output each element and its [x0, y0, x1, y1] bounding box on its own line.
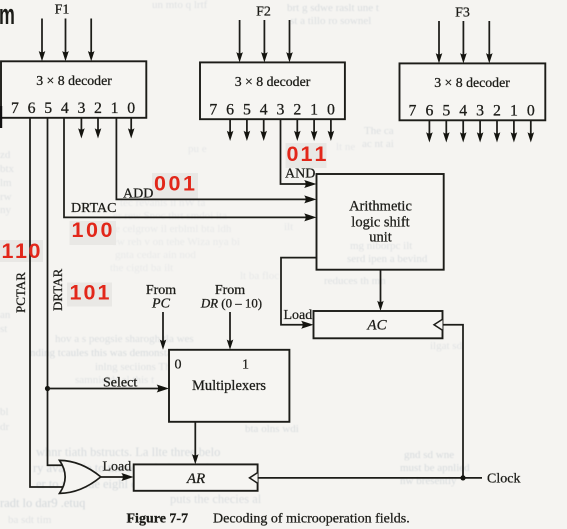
U3 unused output arrows pins 6..0 — [426, 120, 534, 142]
wire DRTAR: U1 pin 5 down to OR gate input, with select tap — [48, 118, 65, 465]
svg-text:the cigtd ba ilt: the cigtd ba ilt — [110, 262, 173, 274]
highlight patch for red code 011 — [286, 143, 327, 168]
red code 100 annotation — [72, 218, 113, 242]
svg-text:lt ne: lt ne — [336, 141, 355, 153]
red code 110 annotation — [2, 239, 41, 263]
svg-text:ba sdt tim: ba sdt tim — [8, 514, 52, 526]
wire From PC into multiplexer input 0 — [160, 312, 167, 350]
svg-text:nw bresently: nw bresently — [400, 475, 457, 487]
svg-text:ilgat sd: ilgat sd — [430, 340, 463, 352]
svg-text:Select: Select — [103, 376, 137, 391]
label F3 — [455, 6, 470, 21]
label From DR (0-10) — [200, 283, 262, 311]
svg-text:serd ipen a bevind: serd ipen a bevind — [347, 253, 428, 265]
svg-text:ny: ny — [0, 204, 12, 216]
svg-text:ADD: ADD — [123, 187, 153, 202]
wire From DR into multiplexer input 1 — [227, 312, 234, 350]
svg-text:DRTAR: DRTAR — [50, 268, 65, 311]
wire AND: U2 pin 3 to ALU input — [281, 119, 317, 188]
register AR box — [134, 464, 258, 490]
junction dot on DRTAR wire at Select tap — [45, 386, 50, 391]
svg-text:ac nt ai: ac nt ai — [362, 138, 394, 150]
svg-text:DR (0 – 10): DR (0 – 10) — [200, 297, 262, 311]
svg-text:1: 1 — [242, 358, 249, 373]
svg-text:lm: lm — [0, 177, 12, 189]
svg-text:zd: zd — [0, 149, 11, 161]
svg-text:bta olns wdi: bta olns wdi — [245, 423, 299, 435]
svg-text:001: 001 — [154, 172, 195, 196]
svg-text:bl: bl — [0, 406, 9, 418]
svg-text:The ca: The ca — [364, 125, 394, 137]
label Load (AR) — [103, 460, 132, 475]
figure caption — [127, 512, 410, 527]
OR gate G1 for AR load — [60, 460, 101, 493]
svg-text:hov a s peogsie sharogh tla we: hov a s peogsie sharogh tla wes — [55, 333, 194, 345]
svg-text:0: 0 — [175, 358, 182, 373]
label F1 — [55, 3, 70, 18]
svg-text:Decoding of microoperation fie: Decoding of microoperation fields. — [213, 512, 410, 527]
decoder U2 output pin numbers 7..0 — [209, 102, 335, 119]
svg-text:3 × 8 decoder: 3 × 8 decoder — [235, 74, 311, 89]
label F2 — [256, 5, 271, 20]
decoder U1 box — [1, 61, 146, 118]
red code 101 annotation — [70, 281, 110, 305]
cropped letter m top-left — [0, 0, 15, 31]
junction dot on clock rail — [460, 475, 465, 480]
svg-text:Load: Load — [284, 308, 313, 323]
svg-text:reduces th mn: reduces th mn — [324, 275, 386, 287]
clock rail wire to Clock label — [258, 477, 482, 479]
wire multiplexer output to AR — [192, 422, 199, 465]
svg-text:Load: Load — [103, 460, 132, 475]
svg-text:brt g sdwe raslt une t: brt g sdwe raslt une t — [287, 2, 379, 14]
U2 unused output arrows pins 6,5,4,2,1,0 — [227, 119, 334, 141]
svg-text:AR: AR — [186, 471, 205, 487]
svg-text:ew reh v on tehe Wiza nya bi: ew reh v on tehe Wiza nya bi — [112, 236, 240, 248]
svg-text:an: an — [0, 309, 11, 321]
svg-text:rw: rw — [0, 191, 12, 203]
svg-text:gnta cedar ain nod: gnta cedar ain nod — [115, 249, 196, 261]
svg-text:110: 110 — [2, 239, 41, 263]
svg-text:Clock: Clock — [487, 472, 520, 487]
svg-text:st a tillo ro sownel: st a tillo ro sownel — [290, 15, 371, 27]
highlight patch for red code 100 — [70, 221, 117, 245]
AC clock input triangle — [434, 319, 443, 330]
svg-text:pu e: pu e — [188, 143, 207, 155]
U1 pin 7 stub cut by page edge — [0, 106, 2, 128]
svg-text:AC: AC — [366, 318, 387, 334]
label AND — [285, 167, 315, 182]
svg-text:nding tcaules this was demonst: nding tcaules this was demonstasled — [30, 347, 190, 359]
label Load (AC) — [284, 308, 313, 323]
svg-text:mg niborpc ilt: mg niborpc ilt — [350, 240, 412, 252]
svg-text:must be apnlied: must be apnlied — [400, 462, 470, 474]
svg-text:PC: PC — [151, 297, 171, 312]
label Clock — [487, 472, 520, 487]
svg-text:dr: dr — [0, 421, 10, 433]
svg-text:100: 100 — [72, 218, 113, 242]
wire Select: junction to multiplexer — [48, 385, 170, 393]
svg-text:logic shift: logic shift — [351, 214, 409, 230]
svg-text:F1: F1 — [55, 3, 70, 18]
highlight patch for red code 101 — [67, 283, 112, 307]
svg-text:er rew Snoc thrt smdoi ita: er rew Snoc thrt smdoi ita — [113, 210, 227, 222]
label PCTAR (rotated) — [13, 272, 28, 313]
svg-text:gnd sd wne: gnd sd wne — [404, 449, 454, 461]
F3 input wires with arrowheads into U3 — [436, 21, 493, 63]
svg-text:un mto q lrtf: un mto q lrtf — [152, 0, 208, 11]
svg-text:radt lo dar9 .etuq: radt lo dar9 .etuq — [0, 496, 86, 510]
svg-text:whnr tiath bstructs. La llte t: whnr tiath bstructs. La llte three belo — [36, 445, 220, 459]
svg-text:st: st — [0, 323, 7, 335]
label DRTAR (rotated) — [50, 268, 65, 311]
decoder U3 box — [400, 63, 546, 120]
svg-text:m: m — [0, 0, 15, 31]
svg-text:3 × 8 decoder: 3 × 8 decoder — [36, 73, 112, 88]
svg-text:btx: btx — [0, 163, 15, 175]
label From PC — [146, 283, 176, 312]
svg-text:Arithmetic: Arithmetic — [349, 199, 412, 215]
decoder U1 output pin numbers 7..0 — [11, 100, 135, 117]
highlight patch for red code 001 — [152, 173, 198, 199]
svg-text:puts the checies al: puts the checies al — [170, 492, 262, 506]
svg-text:F2: F2 — [256, 5, 271, 20]
svg-text:e celgrow il erblml bta ldh: e celgrow il erblml bta ldh — [115, 223, 232, 235]
wire AC clock to clock rail — [443, 325, 464, 478]
F2 input wires with arrowheads into U2 — [236, 20, 292, 62]
wire OR output to AR Load input — [101, 473, 134, 481]
wire Load for AC from ALU left edge — [281, 258, 317, 329]
label Select — [103, 376, 137, 391]
bleed-through text inside ALU box — [324, 240, 428, 287]
wire ALU output to AC — [377, 270, 384, 311]
svg-text:Figure 7-7: Figure 7-7 — [127, 512, 189, 527]
svg-text:101: 101 — [70, 281, 110, 305]
red code 001 annotation — [154, 172, 195, 196]
ALU U4 box — [317, 174, 444, 270]
decoder U2 box — [200, 62, 345, 119]
svg-text:lt ba floc: lt ba floc — [240, 270, 279, 282]
highlight patch for red code 110 — [0, 240, 43, 262]
F1 input wires with arrowheads into U1 — [39, 19, 95, 62]
register AC box — [314, 311, 443, 338]
AR clock input triangle — [250, 473, 258, 484]
wire PCTAR: U1 pin 6 down to OR gate input — [30, 118, 64, 487]
wire ADD: U1 pin 1 to ALU input — [116, 118, 316, 204]
svg-text:F3: F3 — [455, 6, 470, 21]
svg-text:3 × 8 decoder: 3 × 8 decoder — [434, 75, 510, 90]
svg-text:AND: AND — [285, 167, 315, 182]
svg-text:DRTAC: DRTAC — [71, 201, 117, 216]
svg-text:PCTAR: PCTAR — [13, 272, 28, 313]
wire DRTAC: U1 pin 4 to ALU input — [64, 118, 317, 222]
svg-text:Multiplexers: Multiplexers — [192, 378, 266, 394]
decoder U3 output pin numbers 7..0 — [409, 103, 535, 120]
red code 011 annotation — [287, 142, 327, 166]
svg-text:ilt: ilt — [284, 221, 293, 233]
multiplexer U7 box — [169, 350, 289, 422]
label DRTAC — [71, 201, 117, 216]
label ADD — [123, 187, 153, 202]
svg-text:011: 011 — [287, 142, 327, 166]
U1 unused output arrows pins 3,2,0 — [78, 118, 134, 139]
